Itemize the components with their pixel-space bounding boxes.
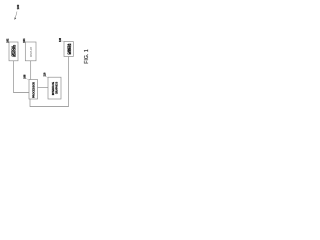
svg-text:GRAPHICS: GRAPHICS [55,81,58,94]
svg-text:PROCESSOR: PROCESSOR [33,82,36,98]
block C (camera module) [64,42,73,57]
arrowhead of 100 arrow [14,17,16,20]
svg-text:MODULE: MODULE [69,43,72,54]
arrow from numeral 100 [15,12,17,18]
svg-text:106: 106 [59,37,62,42]
svg-text:110: 110 [44,72,47,77]
block A (optical sensors) [9,42,18,61]
svg-text:SENSORS: SENSORS [13,45,16,58]
svg-text:100: 100 [16,4,20,9]
block E (memory subsystem) [48,77,61,99]
svg-text:FIG. 1: FIG. 1 [84,49,90,64]
wire A to D [14,61,30,93]
wire B to D [30,61,32,80]
svg-text:102: 102 [7,38,10,43]
block D (processor) [29,80,38,100]
leader line numeral 106 [62,41,64,42]
svg-text:108: 108 [24,74,27,79]
svg-text:INTERFACE: INTERFACE [52,81,55,95]
wire D bottom to C bottom [30,57,69,107]
svg-text:DISPLAY: DISPLAY [30,46,33,57]
block B (display) [25,42,36,61]
leader line numeral 102 [7,41,10,44]
wire D to E [38,87,49,89]
leader line numeral 110 [46,76,48,78]
leader line numeral 104 [24,41,27,44]
svg-text:104: 104 [23,38,26,43]
leader line numeral 108 [26,78,29,80]
